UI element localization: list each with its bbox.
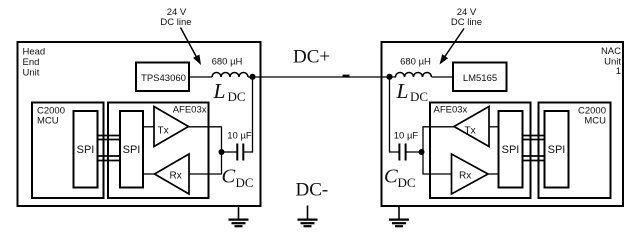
svg-text:DC line: DC line — [160, 17, 191, 28]
svg-text:Rx: Rx — [459, 171, 471, 182]
svg-text:DC-: DC- — [296, 180, 329, 201]
svg-text:MCU: MCU — [37, 116, 59, 127]
SPI box in AFE03x (left) — [120, 111, 143, 188]
ground (left unit) — [229, 206, 249, 226]
C2000 MCU box (right) — [539, 103, 611, 199]
wire vertical connector Tx/Rx (right) — [422, 127, 424, 174]
svg-text:DC: DC — [236, 175, 254, 190]
svg-text:L: L — [396, 79, 409, 103]
svg-text:10 µF: 10 µF — [227, 131, 252, 142]
regulator TPS43060 — [136, 63, 189, 92]
inductor L_DC left (680 uH) — [212, 73, 248, 78]
svg-text:AFE03x: AFE03x — [173, 105, 207, 116]
inductor L_DC right (680 uH) — [396, 73, 432, 78]
arrow from DC line label to inductor (right) — [440, 29, 465, 65]
svg-text:Tx: Tx — [158, 126, 169, 137]
label L_DC (left) — [213, 79, 246, 104]
svg-text:DC: DC — [410, 89, 428, 104]
capacitor C_DC (left) plates — [237, 144, 243, 161]
Head End Unit box — [18, 42, 261, 206]
label Head End Unit — [23, 47, 46, 79]
svg-text:L: L — [213, 79, 226, 103]
wire vertical connector Tx/Rx (left) — [221, 127, 223, 174]
svg-text:680 µH: 680 µH — [212, 57, 243, 68]
svg-text:1: 1 — [616, 66, 621, 77]
Tx amplifier (right) — [454, 107, 489, 147]
AFE03x box (left) — [108, 103, 209, 199]
svg-text:C: C — [384, 166, 398, 188]
svg-text:DC+: DC+ — [293, 47, 330, 68]
wire Tx output (left) — [189, 126, 223, 128]
Rx amplifier (right) — [452, 154, 489, 194]
capacitor C_DC (right) plates — [399, 144, 405, 161]
arrow from DC line label to inductor (left) — [181, 28, 202, 66]
SPI bus lines (right) — [522, 136, 545, 161]
wire Tx output (right) — [423, 126, 455, 128]
wire Rx input (left) — [189, 173, 222, 175]
wire inductor to LM5165 — [432, 76, 454, 78]
C2000 MCU box (left) — [32, 103, 104, 199]
Rx amplifier (left) — [155, 154, 190, 194]
svg-text:10 µF: 10 µF — [394, 130, 419, 141]
node C_DC tap (right) — [419, 149, 425, 155]
wire Rx to SPI (right) — [488, 173, 499, 175]
wire capacitor to node (right) — [406, 151, 424, 153]
wire Tx to SPI (right) — [489, 126, 499, 128]
wire junction down to capacitor (right) — [390, 77, 400, 152]
node C_DC tap (left) — [219, 149, 225, 155]
SPI box in C2000 (left) — [74, 111, 98, 188]
label NAC Unit 1 — [601, 46, 621, 77]
label C_DC (right) — [384, 166, 416, 191]
svg-text:680 µH: 680 µH — [400, 57, 431, 68]
wire DC+ bus between units — [248, 76, 396, 78]
svg-text:SPI: SPI — [548, 144, 566, 156]
wire Rx input (right) — [423, 173, 452, 175]
label C_DC (left) — [222, 166, 254, 191]
svg-text:SPI: SPI — [123, 144, 141, 156]
SPI box in C2000 (right) — [545, 111, 569, 188]
wire capacitor to node (left) — [222, 151, 238, 153]
node junction DC+ (left) — [249, 74, 255, 80]
svg-text:Tx: Tx — [465, 126, 476, 137]
wire Rx to SPI (left) — [143, 173, 155, 175]
AFE03x box (right) — [430, 103, 531, 199]
svg-text:C: C — [222, 166, 236, 188]
ground (DC- return, middle) — [298, 206, 318, 227]
label 24 V DC line (left) — [160, 7, 191, 28]
svg-text:DC: DC — [398, 175, 416, 190]
wire SPI to Tx (left) — [143, 126, 154, 128]
ground (right unit) — [389, 206, 409, 226]
wire TPS43060 to inductor — [189, 76, 212, 78]
node junction DC+ (right) — [386, 74, 392, 80]
svg-text:Unit: Unit — [23, 68, 40, 79]
svg-text:SPI: SPI — [502, 144, 520, 156]
NAC Unit 1 box — [382, 42, 624, 206]
Tx amplifier (left) — [154, 107, 189, 147]
dash on DC+ line — [343, 75, 350, 78]
svg-text:AFE03x: AFE03x — [434, 105, 468, 116]
SPI box in AFE03x (right) — [499, 111, 523, 188]
svg-text:Head: Head — [23, 47, 46, 58]
SPI bus lines (left) — [97, 136, 121, 161]
svg-text:DC line: DC line — [451, 17, 482, 28]
svg-text:LM5165: LM5165 — [463, 73, 497, 84]
regulator LM5165 — [453, 63, 507, 92]
label L_DC (right) — [396, 79, 429, 104]
svg-text:Rx: Rx — [170, 171, 182, 182]
svg-text:End: End — [23, 57, 40, 68]
svg-text:DC: DC — [228, 89, 246, 104]
svg-text:TPS43060: TPS43060 — [141, 73, 186, 84]
svg-text:MCU: MCU — [584, 116, 606, 127]
label 24 V DC line (right) — [451, 7, 482, 28]
wire junction down to capacitor (left) — [244, 77, 253, 152]
svg-text:SPI: SPI — [77, 144, 95, 156]
